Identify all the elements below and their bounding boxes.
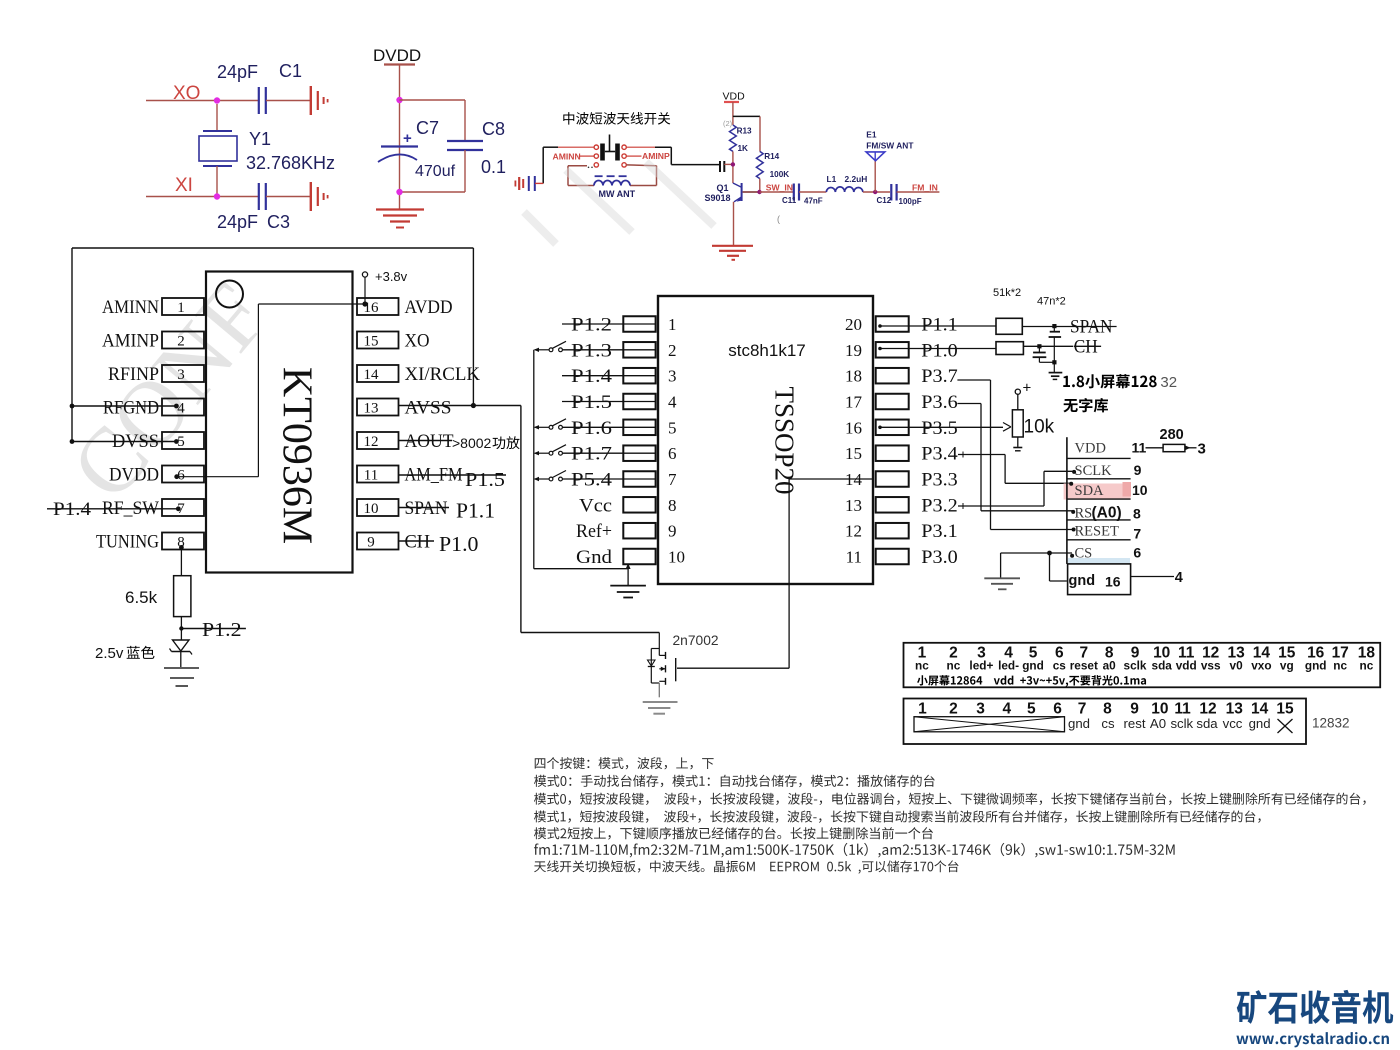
svg-text:P1.2: P1.2 <box>571 315 612 336</box>
svg-text:18: 18 <box>845 367 862 386</box>
capacitor C11 <box>793 184 795 201</box>
wire XO <box>146 100 258 102</box>
svg-text:gnd: gnd <box>1305 659 1327 673</box>
wire TUNING down <box>180 547 182 575</box>
svg-text:Gnd: Gnd <box>576 547 613 568</box>
wire switch to AMINP <box>627 155 642 157</box>
svg-text:12: 12 <box>1199 701 1216 718</box>
svg-text:reset: reset <box>1070 659 1098 673</box>
svg-text:AVSS: AVSS <box>405 398 452 419</box>
svg-text:6: 6 <box>1133 544 1141 560</box>
resistor 51k (SPAN) <box>996 318 1022 334</box>
svg-text:Q1: Q1 <box>717 183 729 193</box>
KT right pin boxes 16-9 <box>357 298 399 315</box>
svg-text:20: 20 <box>845 315 862 334</box>
svg-text:P3.0: P3.0 <box>921 547 958 568</box>
wire P3.7 to RESET <box>957 379 990 381</box>
wire C8 bottom <box>400 191 466 193</box>
svg-text:vg: vg <box>1280 659 1294 673</box>
svg-text:P1.0: P1.0 <box>439 532 479 556</box>
switch K4 (P5.4) <box>549 477 553 481</box>
display row line 5 <box>1067 539 1131 541</box>
svg-text:gnd: gnd <box>1249 716 1271 731</box>
capacitor C8 <box>447 140 483 142</box>
svg-text:RESET: RESET <box>1075 524 1119 540</box>
resistor 51k (CH) <box>996 342 1023 355</box>
svg-text:CH: CH <box>405 532 431 553</box>
junction CS <box>1047 551 1052 556</box>
svg-text:AMINN: AMINN <box>102 297 159 318</box>
svg-text:AMINN: AMINN <box>553 151 581 161</box>
svg-text:TUNING: TUNING <box>96 532 159 553</box>
wire DVDD vertical <box>399 65 401 210</box>
svg-text:P1.7: P1.7 <box>571 444 612 465</box>
svg-text:C8: C8 <box>482 119 505 139</box>
table 12864 box <box>904 643 1381 688</box>
resistor R13 <box>730 125 737 151</box>
ground (SPAN/CH caps) <box>1049 372 1063 374</box>
switch K3 (P1.7) <box>549 451 553 455</box>
svg-text:XO: XO <box>405 331 430 352</box>
svg-text:2n7002: 2n7002 <box>673 633 719 648</box>
svg-text:32: 32 <box>1160 374 1177 391</box>
svg-text:P3.1: P3.1 <box>921 521 958 542</box>
svg-text:8: 8 <box>668 496 677 515</box>
wire P3.4 to SDA <box>958 454 1005 456</box>
wire DVSS <box>72 441 176 443</box>
svg-text:3: 3 <box>1198 440 1206 457</box>
switch S1 body <box>609 135 611 152</box>
svg-text:DVDD: DVDD <box>109 465 159 486</box>
display row line 4 <box>1067 519 1131 521</box>
capacitor 47n (CH) <box>1033 352 1046 354</box>
svg-text:MW ANT: MW ANT <box>599 189 636 199</box>
svg-text:RFINP: RFINP <box>108 364 159 385</box>
junction SPAN <box>1052 324 1056 328</box>
svg-text:9: 9 <box>1134 462 1142 478</box>
svg-text:11: 11 <box>364 468 378 484</box>
display row line 2 <box>1067 478 1131 480</box>
wire AMINN to switch <box>579 155 594 157</box>
svg-text:11: 11 <box>1174 701 1191 718</box>
svg-text:0.1: 0.1 <box>481 157 506 177</box>
wire P1.4/RF_SW strike <box>47 508 178 510</box>
svg-text:10: 10 <box>668 548 685 567</box>
transistor Q1 S9018 <box>733 183 742 187</box>
svg-text:P1.5: P1.5 <box>465 469 505 491</box>
svg-text:13: 13 <box>845 496 862 515</box>
svg-text:24pF: 24pF <box>217 212 258 232</box>
switch K2 (P1.6) <box>549 425 553 429</box>
svg-text:Y1: Y1 <box>249 129 271 149</box>
svg-text:VDD: VDD <box>1075 440 1106 456</box>
svg-text:S9018: S9018 <box>705 193 731 203</box>
table 12864 caption <box>917 675 928 685</box>
junction CH <box>1037 344 1041 348</box>
svg-text:4: 4 <box>177 401 185 417</box>
notes line 7 <box>534 860 958 873</box>
display row line 3 <box>1067 498 1131 500</box>
svg-text:10k: 10k <box>1024 417 1055 438</box>
svg-text:13: 13 <box>1226 701 1244 718</box>
ground (LED) <box>164 667 199 669</box>
svg-text:9: 9 <box>367 535 375 551</box>
svg-text:15: 15 <box>845 444 862 463</box>
svg-text:C11: C11 <box>782 196 797 205</box>
label no font lib <box>1063 399 1077 412</box>
display row line 1 <box>1067 457 1131 459</box>
svg-text:a0: a0 <box>1103 659 1117 673</box>
wire P1.2 strike <box>181 628 246 630</box>
label 1.8 small screen 128 <box>1063 376 1070 387</box>
LED diode 2.5v blue <box>173 640 190 651</box>
svg-text:A0: A0 <box>1150 716 1166 731</box>
mosfet 2n7002 <box>658 633 660 656</box>
wire bus to Gnd pin <box>627 564 629 568</box>
wire left bus <box>71 248 73 442</box>
svg-text:5: 5 <box>1027 701 1036 718</box>
svg-text:1K: 1K <box>738 144 749 153</box>
svg-text:E1: E1 <box>866 130 877 140</box>
watermark CONFI <box>51 264 287 518</box>
display CS blue tint <box>1068 558 1130 564</box>
svg-text:L1: L1 <box>827 174 837 184</box>
internal wire AVDD to DVDD <box>258 303 365 305</box>
capacitor C3 <box>258 183 260 210</box>
svg-text:AVDD: AVDD <box>405 297 453 318</box>
wire R14 to SW_IN <box>759 179 761 192</box>
ground (CS) <box>984 577 1020 579</box>
IC body KT0936M <box>206 272 353 573</box>
svg-text:2.5v: 2.5v <box>95 645 124 662</box>
capacitor C12 <box>890 184 892 201</box>
svg-text:4: 4 <box>1175 570 1183 586</box>
svg-text:nc: nc <box>947 659 961 673</box>
svg-text:9: 9 <box>1130 701 1139 718</box>
wire C12 to FM_IN <box>897 191 940 193</box>
wire gnd box to 4 <box>1131 576 1174 578</box>
svg-text:KT0936M: KT0936M <box>274 367 320 544</box>
inductor MW ANT coil <box>594 181 630 186</box>
wire L1 to C12 <box>863 191 890 193</box>
svg-text:16: 16 <box>845 418 862 437</box>
MW ANT loop <box>568 165 587 167</box>
wire AVSS net <box>399 405 521 407</box>
svg-text:SCLK: SCLK <box>1075 463 1113 479</box>
svg-text:9: 9 <box>668 522 677 541</box>
svg-text:(: ( <box>777 214 780 224</box>
notes line 6 <box>534 843 1175 858</box>
svg-text:3: 3 <box>177 367 185 383</box>
svg-text:2.2uH: 2.2uH <box>845 174 868 184</box>
svg-text:P1.0: P1.0 <box>921 340 958 361</box>
IC body TSSOP20 <box>658 296 873 584</box>
svg-text:10: 10 <box>1132 482 1148 498</box>
svg-text:4: 4 <box>668 393 677 412</box>
wire P1.5 <box>562 401 656 403</box>
svg-text:6: 6 <box>1053 701 1062 718</box>
svg-text:14: 14 <box>1251 701 1269 718</box>
svg-text:5: 5 <box>668 418 677 437</box>
wire top loop <box>72 247 473 249</box>
svg-text:v0: v0 <box>1230 659 1244 673</box>
svg-text:CONF: CONF <box>51 264 287 518</box>
wire C11 to L1 <box>799 191 826 193</box>
svg-text:R14: R14 <box>764 152 779 161</box>
wire CS net <box>1001 552 1072 554</box>
label MW/SW antenna switch title <box>563 112 574 124</box>
svg-text:P1.3: P1.3 <box>571 340 612 361</box>
svg-text:P1.4: P1.4 <box>571 366 613 387</box>
internal wire P3.3 to mosfet gate <box>789 478 873 480</box>
ground (TSSOP Gnd) <box>610 585 646 587</box>
svg-text:P1.6: P1.6 <box>571 418 612 439</box>
svg-text:1: 1 <box>177 300 185 316</box>
wire to CH <box>1023 345 1073 347</box>
inductor L1 <box>826 187 863 192</box>
wire SPAN strike <box>399 507 450 509</box>
display pin dots <box>1072 470 1076 474</box>
switch K1 (P1.3) <box>549 348 553 352</box>
wire P3.2 to SCLK <box>958 505 1044 507</box>
svg-text:P3.4: P3.4 <box>921 444 958 465</box>
svg-text:2: 2 <box>177 334 185 350</box>
svg-text:11: 11 <box>846 548 862 567</box>
junction XI <box>214 193 220 199</box>
notes line 4 <box>534 810 1261 822</box>
svg-text:P1.5: P1.5 <box>571 392 612 413</box>
svg-text:TSSOP20: TSSOP20 <box>770 386 800 494</box>
svg-text:vxo: vxo <box>1251 659 1271 673</box>
junction SW_IN <box>757 190 761 194</box>
svg-text:7: 7 <box>668 470 677 489</box>
ground (mosfet) <box>643 701 678 703</box>
svg-text:C1: C1 <box>279 61 302 81</box>
wire switch top-right to Q1 base cap <box>627 146 656 148</box>
capacitor C1 <box>258 87 260 114</box>
wire DVDD to C8 <box>400 99 466 101</box>
svg-text:P3.3: P3.3 <box>921 470 958 491</box>
notes line 5 <box>534 827 933 839</box>
svg-text:51k*2: 51k*2 <box>993 287 1021 299</box>
wire to SPAN <box>1022 326 1069 328</box>
svg-text:vss: vss <box>1201 659 1221 673</box>
wire Q1 emitter <box>733 202 735 246</box>
capacitor 47n (SPAN) <box>1050 331 1060 333</box>
svg-text:SPAN: SPAN <box>405 498 448 519</box>
wire P1.0 to R 51k <box>879 348 996 350</box>
svg-text:C7: C7 <box>416 118 439 138</box>
svg-text:13: 13 <box>364 401 379 417</box>
logo crystalradio <box>1237 990 1393 1024</box>
svg-text:VDD: VDD <box>723 91 746 103</box>
wire P1.4 <box>562 375 656 377</box>
svg-text:32.768KHz: 32.768KHz <box>246 153 335 173</box>
svg-text:19: 19 <box>845 341 862 360</box>
antenna E1 <box>874 161 876 193</box>
svg-text:gnd: gnd <box>1069 573 1096 589</box>
svg-text:P1.1: P1.1 <box>921 315 958 336</box>
switch terminals (red circles) <box>594 145 598 149</box>
svg-text:C12: C12 <box>877 196 892 205</box>
ground (10k pot) <box>1013 447 1022 449</box>
resistor 6.5k <box>174 576 191 617</box>
resistor R14 <box>756 151 763 178</box>
svg-text:RS: RS <box>1075 506 1093 522</box>
svg-text:AMINP: AMINP <box>642 151 670 161</box>
svg-text:vcc: vcc <box>1223 716 1243 731</box>
svg-text:sclk: sclk <box>1170 716 1193 731</box>
junction caps to ground <box>1052 360 1056 364</box>
pin1 marker circle <box>216 281 243 308</box>
ground (XI, rotated) <box>310 182 312 211</box>
svg-text:12: 12 <box>364 434 379 450</box>
potentiometer 10k <box>1012 410 1023 437</box>
ground (Q1) <box>712 245 753 247</box>
wire VDD branch to R14 <box>733 115 760 117</box>
wire RFGND <box>72 405 176 407</box>
svg-text:DVDD: DVDD <box>373 46 421 65</box>
svg-text:XI: XI <box>175 175 193 196</box>
svg-text:470uf: 470uf <box>415 163 456 180</box>
svg-text:280: 280 <box>1160 427 1184 443</box>
svg-text:100pF: 100pF <box>899 197 922 206</box>
svg-text:6: 6 <box>668 444 677 463</box>
wire P3.6 to RS <box>957 403 981 405</box>
notes line 3 <box>534 793 1366 805</box>
svg-text:gnd: gnd <box>1068 716 1090 731</box>
svg-text:sda: sda <box>1152 659 1173 673</box>
table 12832 X mark <box>1278 719 1293 733</box>
svg-text:AMINP: AMINP <box>102 331 159 352</box>
svg-text:Vcc: Vcc <box>579 495 612 516</box>
svg-text:8: 8 <box>1103 701 1112 718</box>
svg-text:stc8h1k17: stc8h1k17 <box>728 341 806 360</box>
power bar VDD <box>724 101 739 103</box>
svg-text:(A0): (A0) <box>1092 505 1122 522</box>
svg-text:nc: nc <box>1333 659 1347 673</box>
svg-text:P1.1: P1.1 <box>456 499 495 523</box>
svg-text:C3: C3 <box>267 212 290 232</box>
svg-text:CH: CH <box>1074 337 1098 358</box>
svg-text:P3.6: P3.6 <box>921 392 958 413</box>
svg-text:10: 10 <box>1151 701 1168 718</box>
wire AOUT strike <box>399 440 453 442</box>
svg-text:sclk: sclk <box>1124 659 1147 673</box>
svg-text:4: 4 <box>1002 701 1011 718</box>
table 12832 crossed box <box>914 717 1065 732</box>
notes line 2 <box>534 775 935 787</box>
svg-text:47nF: 47nF <box>804 197 823 206</box>
wire VDD down <box>732 102 734 125</box>
svg-text:cs: cs <box>1101 716 1115 731</box>
logo url <box>1236 1032 1389 1047</box>
svg-text:gnd: gnd <box>1022 659 1044 673</box>
TSSOP left pin boxes 1-10 <box>623 316 655 332</box>
svg-text:nc: nc <box>1360 659 1374 673</box>
supply +3.8v <box>362 272 367 277</box>
svg-text:1: 1 <box>918 701 927 718</box>
junction XO <box>214 97 220 103</box>
svg-text:3: 3 <box>668 367 677 386</box>
display SDA highlight <box>1064 484 1131 500</box>
wire XI <box>146 196 258 198</box>
junction Q1 base <box>731 162 735 166</box>
svg-text:AOUT: AOUT <box>405 431 454 452</box>
svg-text:led-: led- <box>998 659 1019 673</box>
svg-text:rest: rest <box>1124 716 1146 731</box>
TSSOP right pin boxes 20-11 <box>876 316 909 332</box>
svg-text:16: 16 <box>1105 574 1121 590</box>
wire P1.2 <box>562 323 656 325</box>
svg-text:P5.4: P5.4 <box>571 470 613 491</box>
svg-text:6.5k: 6.5k <box>125 588 158 607</box>
svg-text:14: 14 <box>364 367 380 383</box>
svg-text:P3.2: P3.2 <box>921 495 958 516</box>
display left rail <box>1066 437 1068 564</box>
svg-text:17: 17 <box>845 393 863 412</box>
wire switch top-left to cap <box>558 146 594 148</box>
wire resistor to LED <box>180 617 182 640</box>
svg-text:1: 1 <box>668 315 677 334</box>
wire SW_IN to C11 <box>760 191 794 193</box>
svg-text:FM_IN: FM_IN <box>912 183 938 193</box>
svg-text:P3.5: P3.5 <box>921 418 958 439</box>
svg-text:12832: 12832 <box>1312 716 1350 731</box>
svg-text:+: + <box>403 130 412 147</box>
capacitor (AM input) + ground rotated <box>534 176 536 191</box>
svg-text:led+: led+ <box>969 659 993 673</box>
wire P3.5 to pot wiper <box>879 426 1003 428</box>
svg-text:SDA: SDA <box>1075 483 1105 499</box>
svg-text:Ref+: Ref+ <box>576 521 612 542</box>
svg-text:P1.4: P1.4 <box>53 499 92 520</box>
svg-text:24pF: 24pF <box>217 62 258 82</box>
svg-text:P3.7: P3.7 <box>921 366 958 387</box>
svg-text:12: 12 <box>845 522 862 541</box>
resistor 280 <box>1163 444 1185 451</box>
power bar DVDD <box>384 63 415 65</box>
svg-text:47n*2: 47n*2 <box>1037 296 1066 308</box>
svg-text:CS: CS <box>1075 545 1093 561</box>
svg-text:(2): (2) <box>723 119 733 128</box>
svg-text:XI/RCLK: XI/RCLK <box>405 364 481 385</box>
svg-text:10: 10 <box>364 501 379 517</box>
wire AVSS to mosfet <box>520 406 522 633</box>
table 12832 box <box>904 699 1307 745</box>
wire R13 to Q1 base <box>732 151 734 183</box>
svg-text:P1.2: P1.2 <box>202 619 242 641</box>
svg-text:FM/SW ANT: FM/SW ANT <box>866 141 914 151</box>
svg-text:R13: R13 <box>737 126 752 135</box>
wire right loop down <box>472 248 474 406</box>
wire P1.1 to R 51k <box>879 325 996 327</box>
svg-text:15: 15 <box>364 334 379 350</box>
capacitor Q1 base <box>719 161 721 172</box>
svg-text:2: 2 <box>668 341 677 360</box>
svg-text:nc: nc <box>915 659 929 673</box>
svg-text:vdd: vdd <box>1176 659 1197 673</box>
svg-text:RFGND: RFGND <box>103 398 159 419</box>
svg-text:2: 2 <box>949 701 958 718</box>
notes line 1 <box>535 757 714 769</box>
svg-text:+3.8v: +3.8v <box>375 269 408 284</box>
wire CH strike <box>399 540 435 542</box>
svg-text:3: 3 <box>976 701 985 718</box>
junction DVDD top <box>396 97 402 103</box>
svg-text:8: 8 <box>1133 505 1141 521</box>
svg-text:15: 15 <box>1276 701 1294 718</box>
